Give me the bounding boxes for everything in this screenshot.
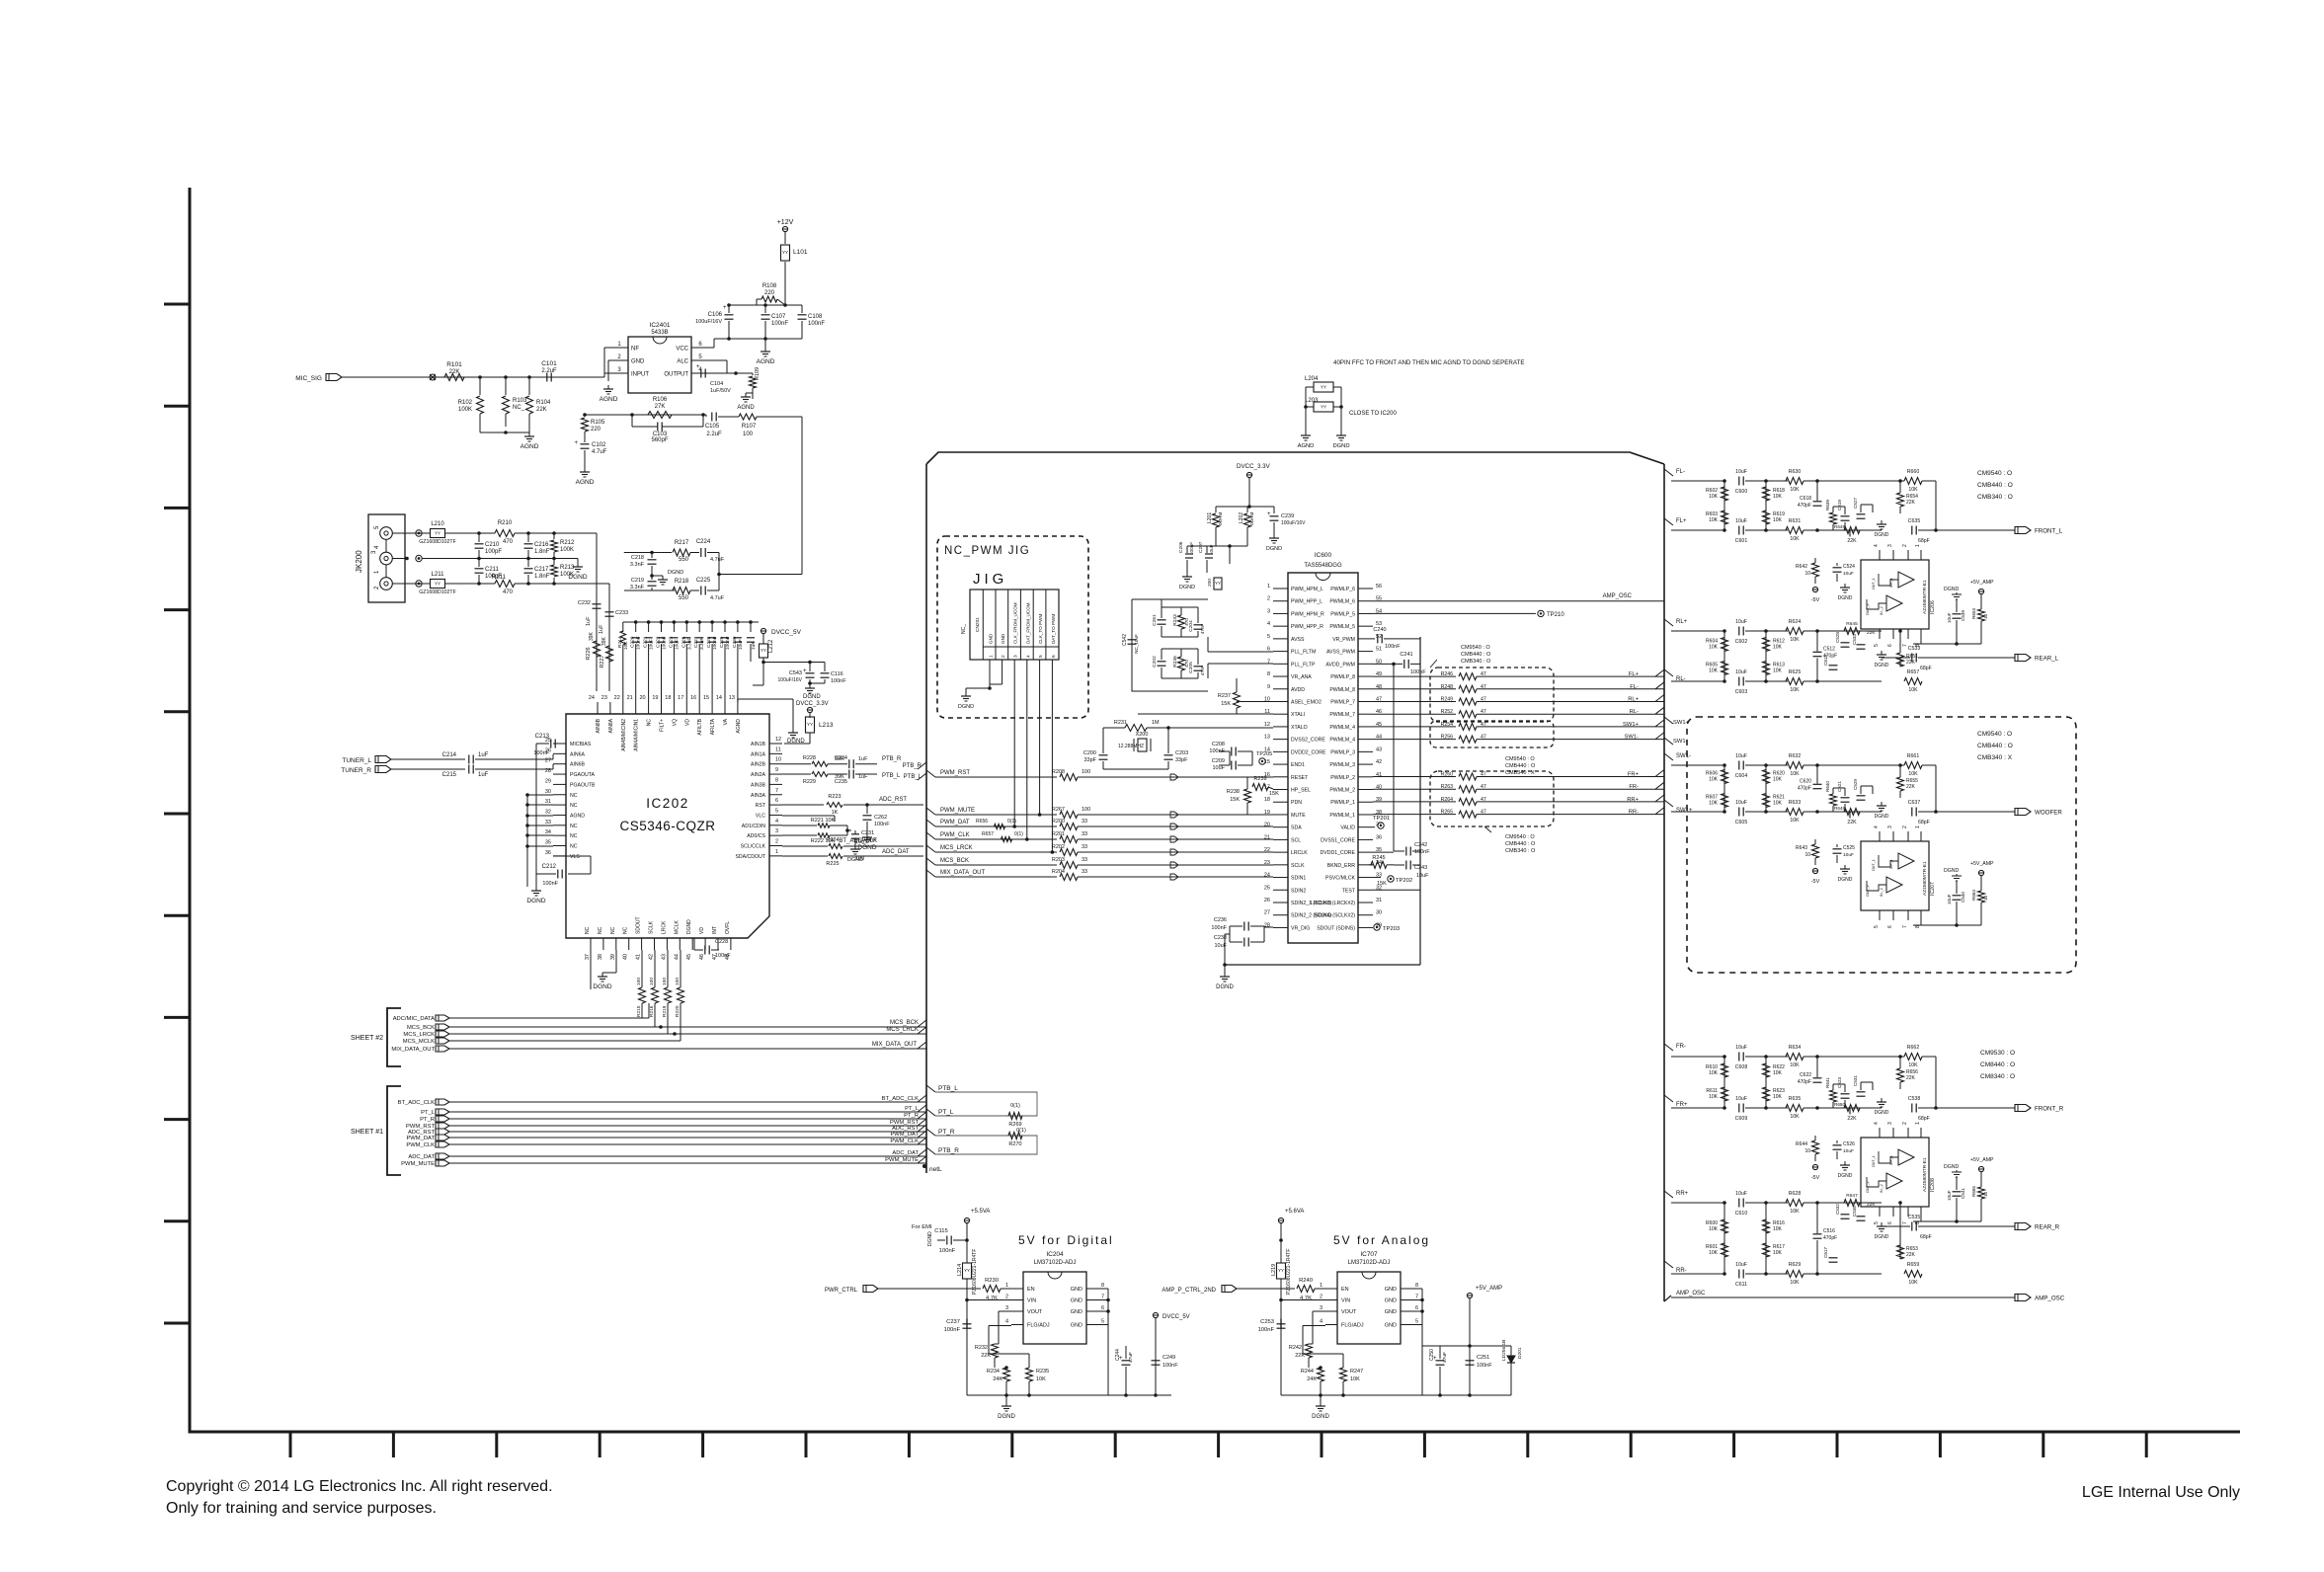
svg-text:GND: GND (1071, 1298, 1082, 1304)
svg-text:FL-: FL- (1630, 684, 1639, 690)
svg-text:R263: R263 (1441, 784, 1454, 790)
svg-text:+5V_AMP: +5V_AMP (1476, 1286, 1502, 1292)
svg-text:PTB_L: PTB_L (938, 1085, 958, 1092)
svg-text:10uF: 10uF (1843, 1148, 1854, 1154)
svg-text:6: 6 (1051, 655, 1057, 658)
svg-text:END1: END1 (1291, 762, 1305, 768)
svg-text:PWM_HPP_L: PWM_HPP_L (1291, 599, 1322, 605)
svg-text:46: 46 (699, 954, 705, 960)
svg-text:3: 3 (1320, 1305, 1322, 1311)
svg-text:R237: R237 (1218, 693, 1231, 699)
svg-text:L204: L204 (1305, 376, 1319, 382)
svg-text:56: 56 (1376, 584, 1382, 589)
svg-text:R221 10K: R221 10K (811, 818, 836, 824)
svg-text:PWM_HPM_L: PWM_HPM_L (1291, 587, 1323, 592)
svg-text:YY: YY (964, 1268, 970, 1273)
svg-text:C526: C526 (1843, 1141, 1855, 1147)
svg-text:PWM_DAT: PWM_DAT (940, 820, 970, 825)
svg-text:IC207: IC207 (1930, 882, 1936, 896)
svg-text:CMB340 : X: CMB340 : X (1505, 770, 1535, 776)
svg-text:AIN8B: AIN8B (596, 718, 601, 733)
svg-text:15K: 15K (1377, 881, 1387, 887)
svg-text:ADC_DAT: ADC_DAT (882, 849, 910, 855)
svg-text:GND: GND (1385, 1323, 1397, 1329)
svg-text:R104: R104 (536, 400, 551, 406)
svg-text:33: 33 (1082, 857, 1087, 863)
svg-text:VR_DIG: VR_DIG (1291, 925, 1310, 931)
svg-text:39K: 39K (601, 636, 607, 646)
svg-text:SW1+: SW1+ (1623, 722, 1640, 728)
svg-text:5: 5 (1267, 634, 1270, 640)
svg-text:PWMLM_7: PWMLM_7 (1329, 712, 1355, 718)
svg-text:PWMLP_6: PWMLP_6 (1330, 587, 1355, 592)
svg-text:DVSS1_CORE: DVSS1_CORE (1321, 837, 1355, 843)
svg-text:L202: L202 (1239, 512, 1244, 523)
svg-text:C105: C105 (705, 424, 720, 430)
svg-text:1K: 1K (832, 810, 839, 816)
svg-text:DGND: DGND (1875, 1110, 1889, 1116)
svg-text:-5V: -5V (1811, 1175, 1820, 1181)
svg-text:DGND: DGND (1838, 595, 1853, 601)
svg-text:JIG: JIG (973, 571, 1007, 588)
svg-text:33: 33 (545, 820, 551, 825)
svg-text:R647: R647 (1846, 1193, 1858, 1199)
svg-text:OUTPUT: OUTPUT (664, 372, 688, 378)
svg-text:C206: C206 (1178, 541, 1184, 553)
svg-text:R645: R645 (1846, 621, 1858, 627)
svg-text:EN: EN (1027, 1287, 1035, 1293)
svg-text:1uF: 1uF (586, 616, 592, 626)
svg-text:R217: R217 (675, 540, 689, 546)
svg-text:100K: 100K (560, 547, 574, 553)
svg-text:10K: 10K (1773, 645, 1783, 651)
svg-text:24: 24 (589, 695, 595, 701)
svg-text:RL+: RL+ (1628, 697, 1639, 703)
svg-text:C232: C232 (578, 600, 591, 606)
svg-text:C212: C212 (542, 864, 557, 870)
svg-text:R661: R661 (1907, 753, 1920, 759)
svg-text:1: 1 (1915, 544, 1921, 547)
svg-text:SHEET #2: SHEET #2 (351, 1035, 383, 1042)
svg-text:100nF: 100nF (1414, 849, 1430, 855)
svg-text:X200: X200 (1136, 732, 1149, 738)
svg-text:2.2uF: 2.2uF (706, 432, 722, 437)
svg-text:C216: C216 (534, 542, 549, 548)
svg-text:100nF: 100nF (636, 636, 642, 650)
svg-text:10uF: 10uF (1735, 669, 1747, 675)
svg-text:PT_R: PT_R (938, 1129, 955, 1136)
svg-text:SDOUT: SDOUT (636, 917, 642, 935)
svg-text:C527: C527 (1853, 498, 1858, 509)
svg-text:PWMLM_5: PWMLM_5 (1329, 624, 1355, 630)
svg-text:DGND: DGND (1944, 587, 1960, 592)
svg-text:C225: C225 (696, 578, 711, 584)
svg-text:15K: 15K (1221, 701, 1231, 707)
svg-text:10uF: 10uF (1735, 753, 1747, 759)
svg-text:C101: C101 (541, 360, 557, 367)
svg-text:DVDD2_CORE: DVDD2_CORE (1291, 749, 1326, 755)
svg-text:7: 7 (1101, 1295, 1104, 1300)
svg-text:netL: netL (929, 1166, 942, 1173)
svg-text:5: 5 (1874, 644, 1880, 647)
svg-text:2: 2 (1005, 1295, 1008, 1300)
svg-text:IN-_2: IN-_2 (1880, 606, 1883, 615)
svg-text:2: 2 (1320, 1295, 1322, 1300)
svg-text:4.7uF: 4.7uF (592, 449, 607, 455)
svg-text:C525: C525 (1843, 845, 1855, 851)
svg-text:C223: C223 (668, 636, 674, 648)
svg-text:10uF: 10uF (1735, 469, 1747, 475)
svg-text:0OHM: 0OHM (1218, 512, 1223, 525)
svg-text:100nF: 100nF (1410, 669, 1426, 675)
svg-text:LRCLKO (LRCK#2): LRCLKO (LRCK#2) (1311, 901, 1356, 906)
svg-text:C251: C251 (1477, 1355, 1489, 1361)
svg-text:R201: R201 (1052, 831, 1065, 837)
svg-text:100: 100 (636, 978, 642, 985)
svg-text:5: 5 (1038, 655, 1044, 658)
svg-text:5: 5 (775, 808, 778, 814)
svg-text:33pF: 33pF (1175, 757, 1188, 763)
svg-text:100nF: 100nF (831, 678, 846, 684)
svg-text:7: 7 (1415, 1295, 1418, 1300)
svg-text:LM37102D-ADJ: LM37102D-ADJ (1034, 1260, 1077, 1266)
svg-text:SW1+: SW1+ (1676, 808, 1693, 814)
svg-text:2: 2 (1267, 596, 1270, 602)
svg-text:52: 52 (1376, 634, 1382, 640)
svg-text:22K: 22K (1847, 820, 1857, 825)
svg-text:44: 44 (674, 954, 680, 960)
svg-text:C115: C115 (934, 1228, 947, 1234)
svg-text:+5V_AMP: +5V_AMP (1970, 580, 1994, 586)
svg-text:MIC_SIG: MIC_SIG (295, 375, 322, 382)
svg-text:R102: R102 (458, 400, 473, 406)
svg-text:CMB440 : O: CMB440 : O (1461, 652, 1491, 658)
svg-text:10uF: 10uF (674, 639, 680, 650)
svg-text:R231: R231 (1114, 720, 1127, 726)
svg-text:22K: 22K (1906, 1252, 1916, 1258)
svg-text:MCS_BCK: MCS_BCK (407, 1025, 435, 1031)
svg-text:27K: 27K (655, 404, 666, 410)
svg-text:TP201: TP201 (1373, 816, 1390, 822)
svg-text:550: 550 (679, 557, 689, 563)
svg-text:+5V_AMP: +5V_AMP (1970, 1157, 1994, 1163)
svg-text:10K: 10K (1908, 1062, 1918, 1068)
svg-text:FLG/ADJ: FLG/ADJ (1027, 1323, 1050, 1329)
svg-text:1uF: 1uF (858, 756, 868, 762)
svg-text:3: 3 (1887, 825, 1893, 828)
svg-text:35: 35 (545, 840, 551, 846)
svg-text:R246: R246 (1441, 671, 1454, 677)
svg-text:R240: R240 (1299, 1278, 1313, 1284)
svg-text:10K: 10K (1773, 1250, 1783, 1256)
svg-text:DGND: DGND (1838, 877, 1853, 883)
svg-text:CMB440 : O: CMB440 : O (1505, 841, 1536, 847)
svg-text:VLS: VLS (570, 854, 580, 860)
svg-text:10: 10 (1983, 895, 1988, 901)
svg-text:10K: 10K (1908, 1280, 1918, 1286)
svg-text:DGND: DGND (686, 919, 692, 934)
svg-text:DVSS2_CORE: DVSS2_CORE (1291, 738, 1325, 744)
svg-text:R202: R202 (1052, 844, 1065, 850)
svg-text:PSVC/MLCK: PSVC/MLCK (1325, 876, 1356, 882)
svg-text:OUT_1: OUT_1 (1872, 859, 1876, 871)
svg-text:R270: R270 (1008, 1141, 1021, 1147)
svg-text:DGND: DGND (958, 704, 974, 710)
svg-text:3: 3 (1005, 1305, 1008, 1311)
svg-text:2: 2 (1902, 825, 1908, 828)
svg-text:PWM_HPM_R: PWM_HPM_R (1291, 611, 1324, 617)
svg-text:15K: 15K (1230, 797, 1240, 803)
svg-text:R235: R235 (1036, 1369, 1049, 1375)
svg-text:AGND: AGND (737, 405, 755, 411)
svg-text:10K: 10K (1709, 801, 1719, 807)
svg-text:30: 30 (1376, 910, 1382, 916)
svg-text:FL+: FL+ (1676, 518, 1687, 524)
svg-text:C512: C512 (1823, 647, 1835, 653)
svg-text:10K: 10K (1709, 1250, 1719, 1256)
svg-text:5V for Digital: 5V for Digital (1018, 1233, 1114, 1247)
svg-text:10K: 10K (1790, 536, 1800, 542)
svg-text:10K: 10K (1773, 777, 1783, 783)
svg-text:10uF: 10uF (1843, 852, 1854, 858)
svg-text:0OHM: 0OHM (1249, 512, 1254, 525)
svg-text:2: 2 (1001, 655, 1006, 658)
svg-text:10K: 10K (1350, 1376, 1360, 1382)
svg-text:OUT_1: OUT_1 (1872, 578, 1876, 589)
svg-text:DGND: DGND (1944, 1164, 1960, 1170)
svg-text:RR+: RR+ (1627, 797, 1639, 803)
svg-text:NC_: NC_ (513, 405, 525, 411)
svg-text:C538: C538 (1908, 1096, 1921, 1102)
svg-text:16: 16 (690, 695, 696, 701)
svg-text:10K: 10K (1908, 771, 1918, 777)
svg-text:10: 10 (1983, 1191, 1988, 1197)
svg-text:29: 29 (545, 778, 551, 784)
svg-text:68pF: 68pF (1918, 538, 1930, 544)
svg-text:GND: GND (989, 633, 994, 644)
svg-text:C200: C200 (1083, 750, 1096, 756)
svg-text:R109: R109 (755, 367, 761, 380)
svg-text:5V for Analog: 5V for Analog (1333, 1233, 1430, 1247)
svg-text:BT_ADC_CLK: BT_ADC_CLK (839, 838, 877, 844)
svg-text:DGND: DGND (1838, 1173, 1853, 1179)
svg-text:R256: R256 (1441, 735, 1454, 741)
svg-text:C529: C529 (1853, 779, 1858, 790)
svg-text:+: + (574, 440, 578, 446)
svg-text:PWM_MUTE: PWM_MUTE (940, 808, 975, 814)
svg-text:23: 23 (601, 695, 607, 701)
svg-text:10K: 10K (1790, 771, 1800, 777)
svg-text:10K: 10K (1709, 1226, 1719, 1232)
svg-text:2: 2 (775, 839, 778, 845)
svg-text:MCS_MCLK: MCS_MCLK (403, 1039, 435, 1045)
svg-text:R249: R249 (1441, 697, 1454, 703)
svg-text:AGND: AGND (757, 358, 775, 365)
svg-text:CM9540 : O: CM9540 : O (1977, 470, 2012, 477)
svg-text:4: 4 (1025, 655, 1031, 658)
svg-text:R225: R225 (826, 861, 839, 867)
svg-text:C523: C523 (1837, 1077, 1842, 1088)
svg-text:C104: C104 (710, 381, 723, 387)
svg-text:AIN1B: AIN1B (751, 742, 766, 747)
svg-text:SW1-: SW1- (1676, 753, 1691, 759)
svg-text:7: 7 (775, 788, 778, 794)
svg-text:42: 42 (1376, 759, 1382, 765)
svg-text:XTALO: XTALO (1291, 725, 1308, 731)
svg-text:MICBIAS: MICBIAS (570, 742, 592, 747)
svg-text:9: 9 (775, 767, 778, 773)
svg-text:10uF: 10uF (1735, 619, 1747, 625)
svg-text:-5V: -5V (1811, 879, 1820, 885)
svg-text:PZ1608U221-1R4TF: PZ1608U221-1R4TF (972, 1249, 978, 1295)
svg-text:IC208: IC208 (1930, 1178, 1936, 1192)
svg-text:RST: RST (756, 803, 766, 809)
svg-text:LRCLK: LRCLK (1291, 850, 1308, 856)
svg-text:DVCC_3.3V: DVCC_3.3V (796, 701, 829, 707)
svg-text:12.288MHZ: 12.288MHZ (1118, 744, 1144, 749)
svg-text:100nF: 100nF (1162, 1363, 1178, 1369)
svg-text:SDIN2: SDIN2 (1291, 888, 1306, 894)
svg-text:PGAOUTB: PGAOUTB (570, 782, 596, 788)
svg-text:14: 14 (716, 695, 722, 701)
svg-text:D201: D201 (1517, 1347, 1523, 1359)
svg-text:C610: C610 (1735, 1211, 1748, 1217)
svg-text:C635: C635 (1908, 518, 1921, 524)
svg-text:Copyright © 2014 LG Electronic: Copyright © 2014 LG Electronics Inc. All… (166, 1478, 553, 1495)
svg-text:6: 6 (775, 798, 778, 804)
svg-text:38: 38 (598, 954, 603, 960)
svg-text:3.3nF: 3.3nF (699, 638, 705, 650)
svg-text:3: 3 (1267, 608, 1270, 614)
svg-text:1uF: 1uF (599, 624, 604, 634)
svg-text:MCS_LRCK: MCS_LRCK (886, 1027, 919, 1033)
svg-text:100nF: 100nF (1258, 1327, 1275, 1333)
svg-text:PWMLM_8: PWMLM_8 (1329, 687, 1355, 693)
svg-text:8: 8 (1267, 671, 1270, 677)
svg-text:27: 27 (1264, 910, 1270, 916)
svg-text:100uF/16V: 100uF/16V (1281, 520, 1306, 526)
svg-text:100: 100 (743, 432, 754, 437)
svg-text:C541: C541 (1961, 1188, 1965, 1199)
svg-text:RR-: RR- (1629, 810, 1639, 816)
svg-text:R204: R204 (1052, 869, 1065, 875)
svg-text:R242: R242 (1289, 1345, 1302, 1351)
svg-text:10K: 10K (1908, 687, 1918, 693)
svg-text:AZ4580MTR-E1: AZ4580MTR-E1 (1922, 580, 1928, 614)
svg-text:22K: 22K (1847, 1116, 1857, 1122)
svg-text:SDIN1: SDIN1 (1291, 876, 1306, 882)
svg-text:R223: R223 (828, 794, 841, 800)
svg-text:2: 2 (1902, 1122, 1908, 1125)
svg-text:10K: 10K (1773, 494, 1783, 500)
svg-text:MIX_DATA_OUT: MIX_DATA_OUT (940, 870, 985, 876)
svg-text:FR-: FR- (1629, 784, 1639, 790)
svg-text:DGND: DGND (803, 694, 821, 700)
svg-text:REAR_L: REAR_L (2035, 656, 2059, 663)
svg-text:LGE Internal Use Only: LGE Internal Use Only (2082, 1484, 2240, 1501)
svg-text:CM9540 : O: CM9540 : O (1977, 731, 2012, 738)
svg-text:DGND: DGND (1266, 546, 1282, 552)
svg-text:R644: R644 (1796, 1141, 1807, 1147)
svg-text:C116: C116 (831, 671, 843, 677)
svg-text:ADC_DAT: ADC_DAT (892, 1150, 919, 1156)
svg-text:AGND: AGND (600, 396, 618, 403)
svg-text:47nF: 47nF (1200, 666, 1205, 676)
svg-text:HP_SEL: HP_SEL (1291, 788, 1311, 794)
svg-text:15: 15 (703, 695, 709, 701)
svg-text:C617: C617 (1823, 1247, 1828, 1258)
svg-text:10uF: 10uF (1735, 1096, 1747, 1102)
svg-text:PDN: PDN (1291, 800, 1302, 806)
svg-text:RL-: RL- (1630, 709, 1639, 715)
svg-text:PWM_CLK: PWM_CLK (940, 832, 970, 838)
svg-text:AGND: AGND (570, 813, 585, 819)
svg-text:1uF: 1uF (751, 642, 757, 650)
svg-text:51: 51 (1376, 647, 1382, 653)
svg-text:EN: EN (1341, 1287, 1349, 1293)
svg-text:PWM_CLK: PWM_CLK (890, 1139, 919, 1144)
svg-text:TP210: TP210 (1547, 612, 1564, 618)
svg-text:LRCK: LRCK (661, 920, 667, 934)
svg-text:GND: GND (1385, 1287, 1397, 1293)
svg-text:24: 24 (1264, 873, 1270, 879)
svg-text:ADC/MIC_DATA: ADC/MIC_DATA (393, 1016, 435, 1022)
svg-text:19: 19 (652, 695, 658, 701)
svg-text:TUNER_R: TUNER_R (341, 767, 371, 774)
svg-text:TEST: TEST (1342, 888, 1356, 894)
svg-text:C102: C102 (592, 442, 606, 448)
svg-text:25: 25 (1264, 885, 1270, 891)
svg-text:26: 26 (1264, 898, 1270, 904)
svg-text:8: 8 (775, 777, 778, 783)
svg-text:4.7K: 4.7K (1300, 1296, 1312, 1301)
svg-text:AIN2A: AIN2A (751, 772, 766, 778)
svg-text:AIN6A: AIN6A (570, 751, 586, 757)
svg-text:AVDD: AVDD (1291, 687, 1305, 693)
svg-text:3.3nF: 3.3nF (686, 638, 692, 650)
svg-text:C210: C210 (485, 542, 500, 548)
svg-text:PZ1608U221-1R4TF: PZ1608U221-1R4TF (1286, 1249, 1292, 1295)
svg-text:C244: C244 (1115, 1349, 1121, 1361)
svg-text:REAR_R: REAR_R (2035, 1224, 2060, 1231)
svg-text:C234: C234 (835, 755, 847, 761)
svg-text:10: 10 (1804, 1148, 1810, 1154)
svg-text:100: 100 (649, 978, 655, 985)
svg-text:MCLK: MCLK (674, 919, 680, 934)
svg-text:TP202: TP202 (1396, 878, 1412, 884)
svg-text:550: 550 (679, 595, 689, 601)
svg-text:R218: R218 (675, 579, 689, 585)
svg-text:4.7K: 4.7K (986, 1296, 998, 1301)
svg-text:VLC: VLC (756, 813, 765, 819)
svg-text:100pF: 100pF (485, 549, 502, 555)
svg-text:SCLKO (SCLK#2): SCLKO (SCLK#2) (1314, 913, 1355, 919)
svg-text:220: 220 (591, 427, 601, 432)
svg-text:470: 470 (503, 539, 514, 545)
svg-text:5433B: 5433B (651, 330, 668, 336)
svg-text:33pF: 33pF (1083, 757, 1096, 763)
svg-text:C608: C608 (1735, 1064, 1748, 1070)
svg-text:L219: L219 (1271, 1264, 1277, 1276)
svg-text:SW1-: SW1- (1673, 739, 1688, 745)
svg-text:VR_ANA: VR_ANA (1291, 674, 1312, 680)
svg-text:11: 11 (775, 747, 781, 752)
svg-text:C242: C242 (1414, 842, 1427, 848)
svg-text:PLL_FLTP: PLL_FLTP (1291, 662, 1316, 668)
svg-text:4: 4 (1874, 825, 1880, 828)
svg-text:3.3nF: 3.3nF (630, 562, 645, 568)
svg-text:VOUT: VOUT (1341, 1309, 1357, 1315)
